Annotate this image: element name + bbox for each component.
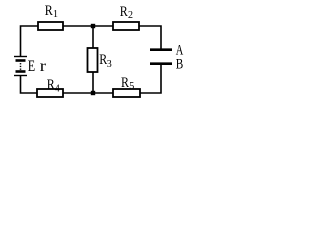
- node junction top: [91, 24, 95, 28]
- wire: top rail: [21, 26, 162, 57]
- svg-text:R: R: [47, 77, 55, 93]
- svg-text:4: 4: [55, 84, 60, 95]
- resistor R2: [113, 4, 139, 30]
- dotted link between cells: [20, 63, 22, 64]
- wire: bottom rail: [21, 65, 162, 93]
- cell 2 short thick plate: [16, 70, 26, 73]
- svg-text:R: R: [45, 3, 53, 19]
- svg-text:3: 3: [107, 59, 112, 70]
- battery E r: [14, 57, 47, 76]
- resistor R4: [37, 77, 63, 97]
- svg-text:R: R: [120, 4, 128, 20]
- resistor R5: [113, 75, 140, 97]
- svg-text:B: B: [176, 56, 184, 72]
- svg-text:1: 1: [53, 9, 58, 20]
- node junction bottom: [91, 91, 95, 95]
- svg-text:2: 2: [128, 10, 133, 21]
- cell 1 short thick plate: [16, 59, 26, 62]
- svg-text:r: r: [40, 58, 47, 75]
- cell 1 long plate: [14, 56, 27, 58]
- terminal plate A: [150, 48, 172, 51]
- svg-text:E: E: [28, 58, 35, 75]
- terminal plate B: [150, 62, 172, 65]
- svg-text:R: R: [121, 75, 129, 91]
- cell 2 long plate: [14, 75, 27, 77]
- resistor R3: [88, 48, 112, 72]
- svg-text:5: 5: [129, 81, 134, 92]
- resistor R1: [38, 3, 63, 30]
- wire: middle branch: [92, 26, 94, 93]
